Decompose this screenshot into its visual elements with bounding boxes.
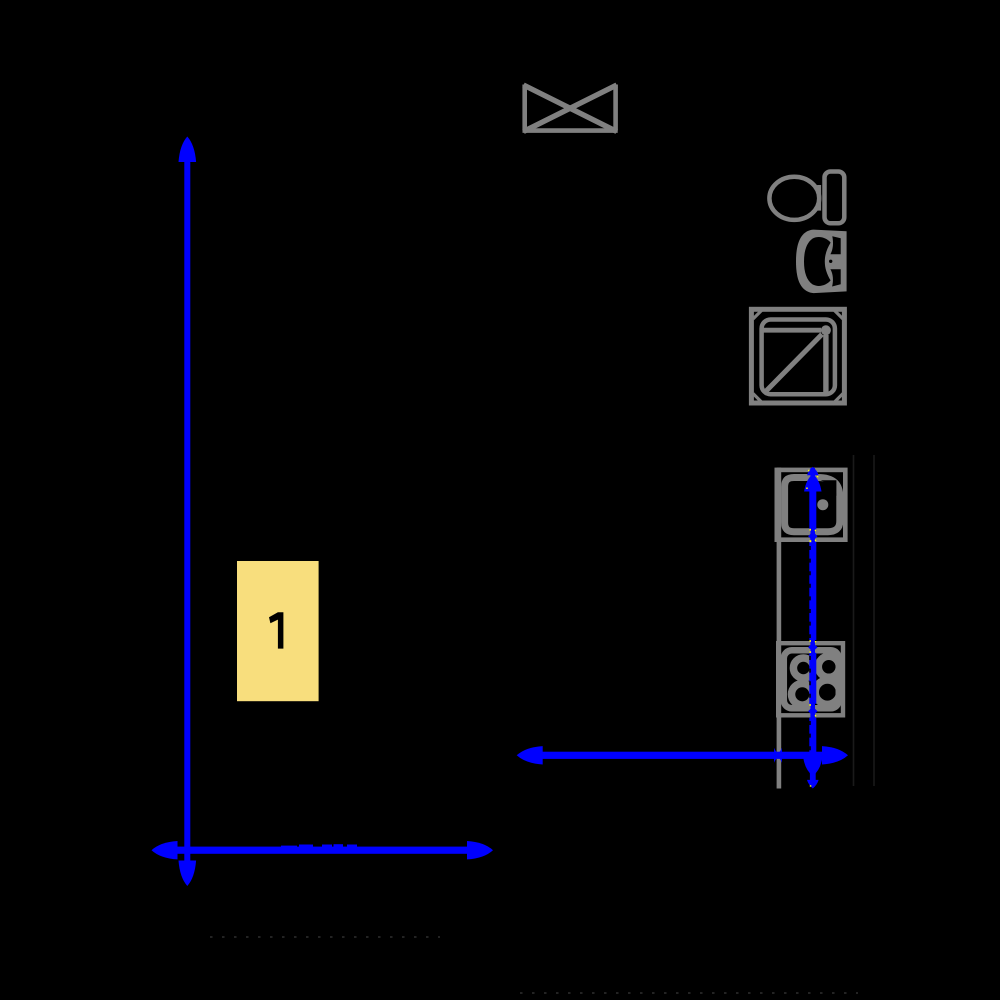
page border dotted line 1: [210, 936, 440, 938]
faint wall line A: [853, 455, 855, 786]
room area 1 (yellow): [237, 561, 319, 701]
page border dotted line 2: [520, 992, 858, 994]
shower: [751, 308, 844, 405]
dashed overlay notches on D4 line: [809, 546, 811, 756]
dimension D2 horizontal bottom: [152, 841, 494, 859]
dimension D4 vertical kitchen: [803, 467, 822, 789]
dimension D3 horizontal kitchen: [517, 746, 848, 764]
washbasin: [796, 230, 847, 294]
stove: [778, 643, 843, 715]
room label 1: [269, 612, 283, 648]
toilet: [769, 172, 844, 224]
dimension D2 label (mostly hidden by line): [281, 846, 297, 848]
kitchen counter left edge: [777, 468, 782, 789]
window W1 (bowtie symbol): [523, 85, 618, 132]
kitchen sink: [777, 470, 846, 540]
faint wall line B: [873, 455, 875, 786]
yellow dimension highlight specks: [806, 470, 818, 787]
dimension D1 vertical left line: [179, 137, 197, 887]
